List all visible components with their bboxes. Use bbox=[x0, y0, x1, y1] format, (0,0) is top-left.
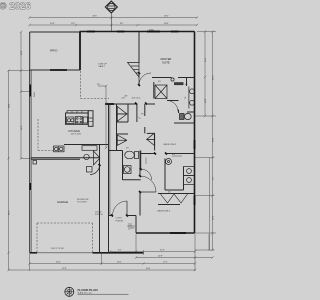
laundry walls bbox=[165, 159, 184, 191]
island sink bbox=[67, 117, 75, 124]
bottom dimension line 1 bbox=[109, 250, 196, 252]
top dimension line 2 bbox=[28, 24, 198, 26]
bottom dim line mid bbox=[135, 256, 214, 258]
garage furnace bbox=[33, 161, 37, 165]
svg-text:PATIO: PATIO bbox=[50, 49, 57, 53]
powder counter bbox=[82, 146, 97, 151]
bottom dimension line 3 overall bbox=[7, 269, 196, 271]
powder sink bbox=[84, 154, 89, 159]
svg-text:MASTER: MASTER bbox=[161, 57, 172, 61]
svg-text:14'8": 14'8" bbox=[158, 255, 163, 257]
bath light symbol bbox=[171, 78, 174, 81]
wc compartment bbox=[174, 110, 195, 124]
closet bifold 3 bbox=[147, 133, 155, 145]
hall south wall of masterbath bbox=[110, 101, 179, 105]
door jamb marks bbox=[99, 72, 168, 217]
svg-text:34'0": 34'0" bbox=[213, 75, 215, 80]
svg-text:9'4": 9'4" bbox=[213, 176, 215, 180]
svg-text:15'8": 15'8" bbox=[50, 23, 55, 25]
PATIO room walls bbox=[30, 32, 80, 70]
hall closet wall bbox=[116, 104, 118, 151]
right vanity bbox=[189, 87, 195, 109]
svg-text:10'0": 10'0" bbox=[213, 137, 215, 142]
bath door arc bbox=[167, 101, 178, 112]
svg-text:16'0": 16'0" bbox=[21, 50, 23, 55]
interior dim vertical bbox=[98, 85, 107, 149]
front wall with door opening bbox=[109, 215, 113, 217]
refrigerator bbox=[88, 111, 93, 127]
right dimension line inner bbox=[204, 30, 206, 117]
hall bath sink bbox=[124, 166, 132, 174]
vanity top dark bbox=[174, 82, 184, 85]
svg-text:PORCH: PORCH bbox=[116, 220, 124, 222]
powder bifold bbox=[94, 151, 101, 165]
svg-text:31'4": 31'4" bbox=[9, 210, 11, 215]
kitchen dashed counter line bbox=[38, 119, 53, 151]
bottom dimension line 2 bbox=[28, 262, 196, 264]
garage door dashed bbox=[37, 223, 93, 253]
title underline bbox=[78, 293, 129, 295]
garage bottom / porch front wall bbox=[30, 252, 37, 254]
bedroom3 west wall bbox=[109, 151, 141, 216]
svg-text:13'0 X 10'8: 13'0 X 10'8 bbox=[71, 134, 82, 136]
pocket door dark bbox=[105, 103, 114, 105]
right dimension line outer bbox=[195, 30, 217, 251]
garage north wall double bbox=[31, 157, 99, 159]
svg-text:28'0": 28'0" bbox=[9, 103, 11, 108]
master bath north wall bbox=[152, 77, 172, 79]
leader line from symbol bbox=[110, 13, 112, 32]
washer dryer bbox=[184, 167, 195, 185]
bedroom3 door swing bbox=[140, 176, 156, 192]
master bath vanity wall bbox=[187, 78, 195, 113]
left dimension line inner bbox=[20, 31, 31, 160]
svg-text:23'4": 23'4" bbox=[56, 261, 61, 263]
top dimension line 1 bbox=[28, 16, 198, 18]
exterior top wall bbox=[80, 31, 195, 33]
svg-text:BEDROOM 2: BEDROOM 2 bbox=[164, 144, 177, 146]
closet bifold 2 bbox=[117, 135, 127, 145]
master west wall bbox=[138, 32, 140, 64]
windows on right wall bbox=[194, 140, 196, 149]
house west upper wall bbox=[80, 32, 82, 71]
master door swing bbox=[139, 73, 151, 85]
svg-text:KITCHEN: KITCHEN bbox=[69, 129, 81, 133]
exterior left wall double bbox=[29, 70, 31, 253]
svg-text:14'0": 14'0" bbox=[117, 261, 122, 263]
svg-text:10'8 CLG: 10'8 CLG bbox=[132, 98, 141, 100]
exterior right wall bbox=[194, 32, 196, 234]
front door swing bbox=[113, 201, 128, 216]
svg-text:16'0 X 7'0 DR: 16'0 X 7'0 DR bbox=[51, 248, 64, 250]
extra interior dim ticks bbox=[127, 223, 135, 229]
title block logo bbox=[65, 287, 74, 296]
shower xbox bbox=[155, 85, 167, 99]
svg-text:11'0": 11'0" bbox=[71, 23, 76, 25]
svg-text:19'4": 19'4" bbox=[160, 249, 165, 251]
wall patio/great room with slider bbox=[30, 69, 81, 71]
svg-text:26'8": 26'8" bbox=[62, 268, 67, 270]
bedroom3 closet zigzag bbox=[158, 194, 195, 205]
island cab bbox=[83, 117, 87, 123]
svg-text:30'6": 30'6" bbox=[93, 16, 98, 18]
windows on left wall bbox=[29, 85, 31, 97]
hall bath door swing bbox=[141, 169, 152, 180]
laundry water heater bbox=[166, 159, 172, 165]
svg-text:60'0": 60'0" bbox=[146, 268, 151, 270]
windows on top wall bbox=[87, 31, 95, 33]
svg-text:TO DOOR: TO DOOR bbox=[77, 202, 87, 204]
svg-text:12'0": 12'0" bbox=[213, 215, 215, 220]
bedroom2 south wall bbox=[141, 153, 195, 155]
door arc garage entry bbox=[90, 165, 100, 175]
kitchen sink on south counter bbox=[54, 146, 65, 152]
svg-text:FLOOR PLAN: FLOOR PLAN bbox=[78, 288, 99, 292]
powder wc bbox=[87, 167, 93, 173]
kitchen island outer bbox=[66, 111, 89, 125]
nook dashed lines bbox=[81, 71, 110, 99]
fireplace angled bbox=[128, 63, 140, 78]
wic wall bbox=[153, 82, 155, 99]
powder room walls bbox=[99, 145, 101, 159]
keynote diamond symbol bbox=[105, 1, 117, 13]
svg-text:9'4": 9'4" bbox=[118, 249, 122, 251]
hall bath toilet bbox=[125, 151, 139, 159]
svg-text:© 2026: © 2026 bbox=[0, 1, 31, 11]
svg-text:15'4": 15'4" bbox=[205, 57, 207, 62]
svg-text:GARAGE: GARAGE bbox=[57, 200, 68, 204]
left dimension line outer bbox=[7, 69, 29, 270]
closet walls mid bbox=[117, 104, 155, 151]
svg-text:BEDROOM 3: BEDROOM 3 bbox=[158, 211, 171, 213]
svg-text:LIN: LIN bbox=[122, 98, 126, 100]
hall bath walls bbox=[109, 151, 141, 181]
svg-text:18'0": 18'0" bbox=[164, 16, 169, 18]
bottom extension lines bbox=[30, 234, 210, 271]
svg-text:COV'D: COV'D bbox=[95, 212, 102, 214]
svg-text:VAULT: VAULT bbox=[99, 65, 106, 68]
svg-text:12'8": 12'8" bbox=[205, 98, 207, 103]
svg-text:COV'D: COV'D bbox=[116, 218, 123, 220]
garage right wall bbox=[99, 159, 101, 253]
svg-text:SUITE: SUITE bbox=[162, 61, 170, 65]
svg-text:17'0": 17'0" bbox=[163, 261, 168, 263]
svg-text:LIN: LIN bbox=[124, 96, 128, 98]
island range bbox=[76, 117, 83, 124]
small interior dim marks bbox=[146, 156, 182, 164]
entry west wall / porch side bbox=[108, 104, 110, 253]
closet bifold 1 bbox=[117, 107, 127, 122]
kitchen south wall bbox=[64, 144, 109, 146]
bedroom3 bottom wall bbox=[136, 232, 195, 234]
svg-text:8'0": 8'0" bbox=[120, 23, 124, 25]
svg-text:24'8": 24'8" bbox=[21, 125, 23, 130]
svg-text:16'8": 16'8" bbox=[164, 23, 169, 25]
